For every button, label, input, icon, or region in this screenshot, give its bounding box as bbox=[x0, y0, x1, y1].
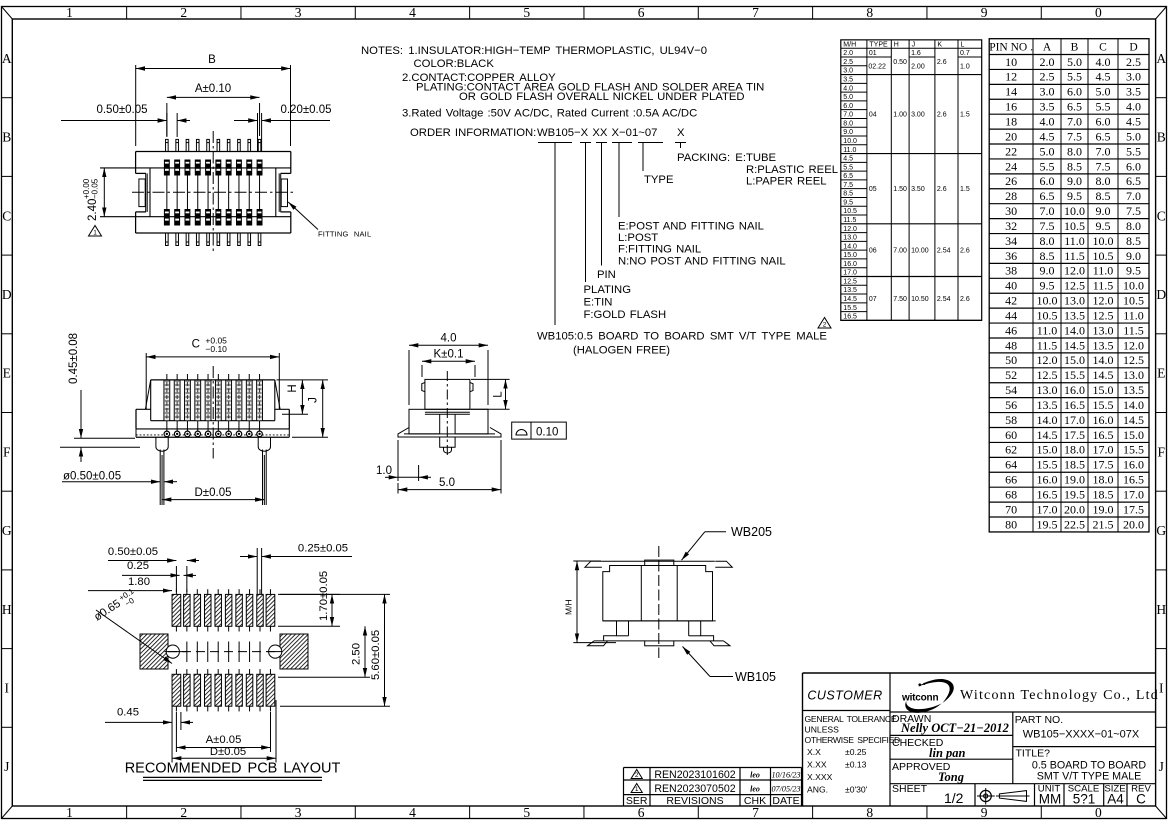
svg-text:A: A bbox=[1043, 42, 1052, 54]
svg-text:13.5: 13.5 bbox=[1123, 383, 1144, 397]
dimension M/H mating view bbox=[573, 560, 601, 562]
svg-text:20: 20 bbox=[1005, 129, 1017, 143]
svg-text:H: H bbox=[2, 602, 12, 617]
svg-text:E:TIN: E:TIN bbox=[584, 297, 613, 309]
svg-text:8.0: 8.0 bbox=[843, 120, 853, 127]
svg-text:1.0: 1.0 bbox=[376, 465, 392, 477]
side view middle body bbox=[409, 409, 488, 434]
svg-text:7: 7 bbox=[752, 805, 759, 820]
svg-text:12.5: 12.5 bbox=[1064, 279, 1085, 293]
svg-text:48: 48 bbox=[1005, 338, 1017, 352]
svg-text:2.6: 2.6 bbox=[960, 248, 970, 255]
svg-text:0.45±0.08: 0.45±0.08 bbox=[68, 333, 80, 384]
svg-text:1.50: 1.50 bbox=[893, 186, 907, 193]
svg-text:22: 22 bbox=[1005, 144, 1017, 158]
svg-text:17.5: 17.5 bbox=[1123, 502, 1144, 516]
svg-text:7.5: 7.5 bbox=[1040, 219, 1055, 233]
svg-text:0.20±0.05: 0.20±0.05 bbox=[280, 104, 331, 116]
svg-text:3: 3 bbox=[295, 5, 302, 20]
svg-text:15.0: 15.0 bbox=[1093, 383, 1114, 397]
svg-text:5.0: 5.0 bbox=[843, 94, 853, 101]
svg-text:14.5: 14.5 bbox=[1123, 413, 1144, 427]
svg-text:4.0: 4.0 bbox=[843, 85, 853, 92]
svg-text:N:NO POST AND FITTING NAIL: N:NO POST AND FITTING NAIL bbox=[618, 256, 786, 268]
svg-text:32: 32 bbox=[1005, 219, 1017, 233]
svg-text:16: 16 bbox=[1005, 100, 1017, 114]
svg-text:6.0: 6.0 bbox=[1067, 85, 1082, 99]
dimension 0.50±0.05 top view bbox=[166, 113, 168, 137]
svg-text:28: 28 bbox=[1005, 189, 1017, 203]
svg-text:8.0: 8.0 bbox=[1126, 219, 1141, 233]
svg-text:R:PLASTIC REEL: R:PLASTIC REEL bbox=[746, 164, 838, 176]
svg-text:2.6: 2.6 bbox=[937, 112, 947, 119]
front view left post pin bbox=[159, 450, 161, 506]
svg-text:10/16/23: 10/16/23 bbox=[771, 771, 800, 780]
svg-text:2.00: 2.00 bbox=[911, 63, 925, 70]
svg-text:PACKING: E:TUBE: PACKING: E:TUBE bbox=[677, 152, 777, 164]
svg-text:11.5: 11.5 bbox=[843, 217, 856, 224]
svg-text:16.5: 16.5 bbox=[1123, 473, 1144, 487]
svg-text:2.6: 2.6 bbox=[937, 59, 947, 66]
front view base bbox=[136, 408, 151, 410]
svg-text:2.6: 2.6 bbox=[937, 186, 947, 193]
svg-text:REVISIONS: REVISIONS bbox=[666, 795, 723, 807]
svg-text:C: C bbox=[1136, 792, 1146, 807]
svg-text:52: 52 bbox=[1005, 368, 1017, 382]
svg-text:1.6: 1.6 bbox=[911, 50, 921, 57]
top view wing outline bbox=[136, 151, 291, 153]
svg-text:15.0: 15.0 bbox=[843, 252, 857, 259]
svg-text:11.0: 11.0 bbox=[1093, 264, 1114, 278]
svg-text:7.0: 7.0 bbox=[1126, 189, 1141, 203]
svg-text:17.0: 17.0 bbox=[843, 270, 857, 277]
svg-text:FITTING NAIL: FITTING NAIL bbox=[318, 230, 371, 239]
svg-text:K±0.1: K±0.1 bbox=[434, 349, 464, 361]
svg-text:12.5: 12.5 bbox=[1093, 308, 1114, 322]
svg-text:14.0: 14.0 bbox=[843, 243, 857, 250]
svg-text:2.6: 2.6 bbox=[960, 296, 970, 303]
svg-text:H: H bbox=[894, 42, 899, 49]
svg-text:1.70±0.05: 1.70±0.05 bbox=[318, 571, 330, 621]
svg-text:CUSTOMER: CUSTOMER bbox=[807, 689, 882, 703]
svg-text:6.5: 6.5 bbox=[1040, 189, 1055, 203]
svg-text:2.0: 2.0 bbox=[1040, 55, 1055, 69]
svg-text:OTHERWISE SPECIFIED: OTHERWISE SPECIFIED bbox=[805, 735, 901, 745]
svg-text:leo: leo bbox=[750, 785, 760, 794]
svg-text:0: 0 bbox=[1095, 5, 1102, 20]
svg-text:8.0: 8.0 bbox=[1040, 234, 1055, 248]
front view solder balls bbox=[164, 431, 170, 437]
svg-text:10.5: 10.5 bbox=[1064, 219, 1085, 233]
svg-text:F:GOLD FLASH: F:GOLD FLASH bbox=[584, 309, 667, 321]
mating view WB105 side steps bbox=[628, 621, 630, 636]
svg-text:F:FITTING NAIL: F:FITTING NAIL bbox=[618, 244, 701, 256]
svg-text:18.0: 18.0 bbox=[1064, 443, 1085, 457]
svg-text:2.5: 2.5 bbox=[843, 59, 853, 66]
svg-text:18.0: 18.0 bbox=[1093, 473, 1114, 487]
dimension K±0.1 side view bbox=[421, 365, 423, 377]
svg-text:11.0: 11.0 bbox=[1123, 308, 1144, 322]
svg-text:11.0: 11.0 bbox=[1037, 323, 1058, 337]
front view centerline bbox=[212, 366, 214, 459]
svg-text:±0.25: ±0.25 bbox=[845, 747, 867, 757]
svg-text:H: H bbox=[287, 384, 299, 392]
side view top block bbox=[425, 379, 470, 409]
svg-text:17.0: 17.0 bbox=[1064, 413, 1085, 427]
svg-text:ORDER INFORMATION:: ORDER INFORMATION: bbox=[410, 127, 536, 139]
svg-text:ø0.50±0.05: ø0.50±0.05 bbox=[63, 471, 121, 483]
svg-text:A4: A4 bbox=[1107, 792, 1124, 807]
svg-text:8.5: 8.5 bbox=[843, 191, 853, 198]
dimension B top view bbox=[135, 65, 137, 146]
projection symbol bbox=[980, 790, 991, 801]
svg-text:16.5: 16.5 bbox=[1093, 428, 1114, 442]
svg-text:SMT V/T TYPE MALE: SMT V/T TYPE MALE bbox=[1037, 771, 1142, 783]
svg-text:7.5: 7.5 bbox=[1096, 159, 1111, 173]
svg-text:16.0: 16.0 bbox=[1064, 383, 1085, 397]
svg-text:56: 56 bbox=[1005, 398, 1017, 412]
title block grid lines bbox=[889, 673, 891, 806]
svg-text:M/H: M/H bbox=[564, 599, 574, 615]
svg-text:3.00: 3.00 bbox=[911, 112, 925, 119]
svg-text:J: J bbox=[4, 759, 9, 774]
svg-text:13.5: 13.5 bbox=[1093, 338, 1114, 352]
top view horizontal centerline bbox=[132, 191, 296, 193]
svg-text:4: 4 bbox=[409, 5, 416, 20]
svg-text:17.5: 17.5 bbox=[1064, 428, 1085, 442]
dimension H front view bbox=[277, 379, 329, 381]
svg-text:±0'30': ±0'30' bbox=[845, 785, 868, 795]
svg-text:2.50: 2.50 bbox=[351, 643, 363, 665]
mating view WB105 bottom flange bbox=[594, 640, 645, 642]
svg-text:8.5: 8.5 bbox=[1126, 234, 1141, 248]
svg-text:5.5: 5.5 bbox=[1126, 144, 1141, 158]
svg-text:SER: SER bbox=[626, 795, 648, 807]
svg-text:2.5: 2.5 bbox=[1126, 55, 1141, 69]
svg-text:6.0: 6.0 bbox=[1040, 174, 1055, 188]
dimension 2.50 pcb bbox=[278, 676, 370, 678]
svg-text:12.0: 12.0 bbox=[1123, 338, 1144, 352]
svg-text:7.5: 7.5 bbox=[1126, 204, 1141, 218]
svg-text:9.5: 9.5 bbox=[1126, 264, 1141, 278]
svg-text:11.5: 11.5 bbox=[1123, 323, 1144, 337]
dimension 5.60±0.05 pcb bbox=[280, 593, 390, 595]
svg-text:G: G bbox=[2, 523, 12, 538]
svg-text:X: X bbox=[677, 127, 685, 139]
svg-text:3.50: 3.50 bbox=[911, 186, 925, 193]
svg-text:TYPE: TYPE bbox=[644, 174, 674, 186]
svg-text:66: 66 bbox=[1005, 473, 1017, 487]
svg-text:6.0: 6.0 bbox=[843, 103, 853, 110]
svg-text:5.5: 5.5 bbox=[1067, 70, 1082, 84]
svg-text:8.5: 8.5 bbox=[1040, 249, 1055, 263]
pcb layout left hole circle bbox=[166, 645, 179, 658]
svg-text:16.5: 16.5 bbox=[1037, 488, 1058, 502]
svg-text:X.X: X.X bbox=[807, 747, 821, 757]
dimension C +0.05/-0.10 front view bbox=[145, 353, 147, 409]
svg-text:4: 4 bbox=[409, 805, 416, 820]
title block outline bbox=[803, 672, 1156, 674]
svg-text:6.5: 6.5 bbox=[1126, 174, 1141, 188]
svg-text:A: A bbox=[1156, 51, 1166, 66]
svg-text:X.XX: X.XX bbox=[807, 760, 827, 770]
svg-text:6.0: 6.0 bbox=[1096, 115, 1111, 129]
svg-text:18: 18 bbox=[1005, 115, 1017, 129]
svg-text:19.5: 19.5 bbox=[1064, 488, 1085, 502]
witconn logo bbox=[919, 679, 954, 703]
svg-text:10.0: 10.0 bbox=[1093, 234, 1114, 248]
svg-text:17.0: 17.0 bbox=[1123, 488, 1144, 502]
svg-text:GENERAL TOLERANCE: GENERAL TOLERANCE bbox=[805, 714, 897, 724]
svg-text:−0.05: −0.05 bbox=[91, 178, 100, 199]
svg-text:1: 1 bbox=[93, 230, 97, 237]
dimension J front view bbox=[292, 436, 328, 438]
svg-text:0.7: 0.7 bbox=[960, 50, 970, 57]
svg-text:2.0: 2.0 bbox=[843, 50, 853, 57]
svg-text:H: H bbox=[1156, 602, 1166, 617]
svg-text:SHEET: SHEET bbox=[892, 783, 928, 795]
svg-text:6.5: 6.5 bbox=[843, 173, 853, 180]
svg-text:9: 9 bbox=[981, 805, 988, 820]
svg-text:C: C bbox=[1157, 208, 1166, 223]
svg-text:3.0: 3.0 bbox=[1040, 85, 1055, 99]
svg-text:13.0: 13.0 bbox=[1093, 323, 1114, 337]
svg-text:CHK: CHK bbox=[744, 795, 766, 807]
svg-text:2.54: 2.54 bbox=[937, 248, 951, 255]
svg-text:9.5: 9.5 bbox=[1067, 189, 1082, 203]
svg-text:16.5: 16.5 bbox=[843, 314, 857, 321]
svg-text:44: 44 bbox=[1005, 308, 1017, 322]
side view center channel bbox=[439, 414, 441, 434]
svg-text:D: D bbox=[2, 287, 12, 302]
svg-text:J: J bbox=[1159, 759, 1164, 774]
frame row dividers left band bbox=[2, 97, 13, 99]
svg-text:10: 10 bbox=[1005, 55, 1017, 69]
front view left post bbox=[156, 437, 168, 451]
svg-text:14.0: 14.0 bbox=[1037, 413, 1058, 427]
svg-text:11.5: 11.5 bbox=[1093, 279, 1114, 293]
svg-text:11.5: 11.5 bbox=[1064, 249, 1085, 263]
svg-text:0.50±0.05: 0.50±0.05 bbox=[96, 104, 147, 116]
svg-text:12.0: 12.0 bbox=[1037, 353, 1058, 367]
svg-text:MM: MM bbox=[1039, 792, 1062, 807]
svg-text:±0.13: ±0.13 bbox=[845, 760, 867, 770]
svg-text:PIN: PIN bbox=[597, 269, 616, 281]
svg-text:13.5: 13.5 bbox=[1037, 398, 1058, 412]
svg-text:19.5: 19.5 bbox=[1037, 517, 1058, 531]
svg-text:lin pan: lin pan bbox=[929, 746, 966, 760]
svg-text:A±0.05: A±0.05 bbox=[206, 734, 242, 746]
svg-text:10.00: 10.00 bbox=[911, 248, 929, 255]
svg-text:13.5: 13.5 bbox=[843, 287, 857, 294]
dimension 4.0 side view bbox=[408, 350, 410, 405]
mating view WB205 body bbox=[603, 566, 713, 621]
mating view WB205 left wing tip bbox=[585, 561, 602, 567]
svg-text:7.00: 7.00 bbox=[893, 248, 907, 255]
svg-text:E: E bbox=[3, 366, 11, 381]
svg-text:8: 8 bbox=[866, 805, 873, 820]
svg-text:RECOMMENDED PCB LAYOUT: RECOMMENDED PCB LAYOUT bbox=[125, 761, 341, 777]
svg-text:M/H: M/H bbox=[843, 42, 856, 49]
svg-text:1.0: 1.0 bbox=[960, 63, 970, 70]
svg-text:21.5: 21.5 bbox=[1093, 517, 1114, 531]
svg-text:9.5: 9.5 bbox=[1096, 219, 1111, 233]
svg-text:3.5: 3.5 bbox=[1040, 100, 1055, 114]
svg-text:14.0: 14.0 bbox=[1064, 323, 1085, 337]
svg-text:7.50: 7.50 bbox=[893, 296, 907, 303]
svg-text:REN2023070502: REN2023070502 bbox=[654, 783, 735, 795]
svg-text:46: 46 bbox=[1005, 323, 1017, 337]
svg-text:14.5: 14.5 bbox=[1093, 368, 1114, 382]
svg-text:6.0: 6.0 bbox=[1126, 159, 1141, 173]
svg-text:7.0: 7.0 bbox=[1040, 204, 1055, 218]
svg-text:12.0: 12.0 bbox=[1093, 294, 1114, 308]
svg-text:1.80: 1.80 bbox=[128, 576, 150, 588]
svg-text:5.0: 5.0 bbox=[439, 477, 455, 489]
svg-text:witconn: witconn bbox=[901, 693, 938, 704]
svg-text:15.5: 15.5 bbox=[1037, 458, 1058, 472]
svg-text:2.54: 2.54 bbox=[937, 296, 951, 303]
pcb layout pads top row bbox=[172, 594, 181, 626]
svg-text:7.5: 7.5 bbox=[843, 182, 853, 189]
svg-text:COLOR:BLACK: COLOR:BLACK bbox=[414, 58, 495, 70]
mating view centerline bbox=[658, 546, 660, 658]
svg-text:PLATING: PLATING bbox=[584, 284, 632, 296]
svg-text:80: 80 bbox=[1005, 517, 1017, 531]
svg-text:10.0: 10.0 bbox=[843, 138, 857, 145]
svg-text:UNLESS: UNLESS bbox=[805, 725, 840, 735]
svg-text:WB105:0.5 BOARD TO BOARD S: WB105:0.5 BOARD TO BOARD SMT V/T TYPE MA… bbox=[537, 331, 827, 343]
svg-text:3: 3 bbox=[295, 805, 302, 820]
svg-text:10.0: 10.0 bbox=[1064, 204, 1085, 218]
svg-text:13.0: 13.0 bbox=[1064, 294, 1085, 308]
svg-text:2.40: 2.40 bbox=[87, 199, 99, 221]
svg-text:10.0: 10.0 bbox=[1123, 279, 1144, 293]
svg-text:17.0: 17.0 bbox=[1093, 443, 1114, 457]
order info drop lines bbox=[554, 143, 556, 326]
svg-text:3.0: 3.0 bbox=[1126, 70, 1141, 84]
svg-text:PIN NO .: PIN NO . bbox=[989, 42, 1033, 54]
mating view WB105 foot tips bbox=[588, 641, 608, 646]
svg-text:13.0: 13.0 bbox=[843, 235, 857, 242]
svg-text:9.0: 9.0 bbox=[1096, 204, 1111, 218]
dimension 1.70±0.05 pcb bbox=[278, 593, 340, 595]
dimension hole diameter pcb bbox=[91, 586, 140, 626]
pcb layout pads bottom row bbox=[172, 674, 181, 706]
svg-text:1.5: 1.5 bbox=[960, 112, 970, 119]
mating view WB205 right wing tip bbox=[715, 561, 732, 567]
svg-text:10.5: 10.5 bbox=[1123, 294, 1144, 308]
svg-text:42: 42 bbox=[1005, 294, 1017, 308]
svg-text:F: F bbox=[1157, 444, 1165, 459]
svg-text:16.0: 16.0 bbox=[1093, 413, 1114, 427]
front view right post bbox=[258, 437, 270, 451]
svg-text:9.5: 9.5 bbox=[1040, 279, 1055, 293]
note triangle 1 top view bbox=[88, 226, 101, 237]
svg-text:13.0: 13.0 bbox=[1037, 383, 1058, 397]
svg-text:J: J bbox=[308, 397, 320, 403]
svg-text:5?1: 5?1 bbox=[1073, 792, 1096, 807]
svg-text:I: I bbox=[5, 680, 10, 695]
frame corner diagonals bbox=[2, 7, 13, 20]
svg-text:PART NO.: PART NO. bbox=[1015, 714, 1063, 726]
svg-text:E:POST AND FITTING NAIL: E:POST AND FITTING NAIL bbox=[618, 221, 764, 233]
front view upper body bbox=[151, 379, 275, 381]
svg-text:60: 60 bbox=[1005, 428, 1017, 442]
svg-text:16.0: 16.0 bbox=[1123, 458, 1144, 472]
svg-text:04: 04 bbox=[869, 112, 877, 119]
svg-text:68: 68 bbox=[1005, 488, 1017, 502]
frame row dividers right band bbox=[1156, 97, 1167, 99]
dimension 0.20±0.05 top view bbox=[257, 113, 259, 152]
svg-text:17.5: 17.5 bbox=[1093, 458, 1114, 472]
svg-text:4.5: 4.5 bbox=[843, 156, 853, 163]
pcb layout left square pad bbox=[140, 634, 168, 669]
svg-text:14.5: 14.5 bbox=[1037, 428, 1058, 442]
svg-text:8.5: 8.5 bbox=[1067, 159, 1082, 173]
top view left notch step bbox=[136, 172, 146, 174]
svg-text:2: 2 bbox=[180, 5, 187, 20]
svg-text:34: 34 bbox=[1005, 234, 1017, 248]
svg-text:26: 26 bbox=[1005, 174, 1017, 188]
svg-text:3.5: 3.5 bbox=[1126, 85, 1141, 99]
svg-text:OR GOLD FLASH OVERALL NICK: OR GOLD FLASH OVERALL NICKEL UNDER PLATE… bbox=[459, 91, 745, 103]
svg-text:5: 5 bbox=[523, 805, 530, 820]
svg-text:(HALOGEN FREE): (HALOGEN FREE) bbox=[573, 345, 670, 357]
svg-text:WB105−XXXX−01~07X: WB105−XXXX−01~07X bbox=[1023, 729, 1140, 741]
svg-text:0.50: 0.50 bbox=[893, 59, 907, 66]
svg-text:0.25: 0.25 bbox=[127, 560, 149, 572]
svg-text:11.0: 11.0 bbox=[1064, 234, 1085, 248]
flatness tolerance callout side view bbox=[512, 422, 567, 439]
svg-text:3.Rated Voltage :50V AC/DC,: 3.Rated Voltage :50V AC/DC, Rated Curren… bbox=[402, 108, 697, 120]
svg-text:30: 30 bbox=[1005, 204, 1017, 218]
side view bottom post bbox=[440, 437, 455, 447]
svg-text:G: G bbox=[1156, 523, 1166, 538]
svg-text:24: 24 bbox=[1005, 159, 1017, 173]
svg-text:10.5: 10.5 bbox=[843, 208, 857, 215]
svg-text:4.5: 4.5 bbox=[1040, 129, 1055, 143]
dimension A±0.10 top view bbox=[166, 103, 168, 136]
mating view cavity walls bbox=[640, 566, 642, 621]
svg-text:11.0: 11.0 bbox=[843, 147, 856, 154]
svg-text:15.5: 15.5 bbox=[843, 305, 857, 312]
svg-text:64: 64 bbox=[1005, 458, 1017, 472]
svg-text:X.XXX: X.XXX bbox=[807, 772, 833, 782]
svg-text:0.45: 0.45 bbox=[117, 707, 139, 719]
svg-text:07/05/23: 07/05/23 bbox=[771, 785, 800, 794]
svg-text:WB105−X XX X−01~07: WB105−X XX X−01~07 bbox=[537, 127, 657, 139]
svg-text:8.0: 8.0 bbox=[1067, 144, 1082, 158]
mating view WB205 top flange bbox=[602, 560, 715, 562]
svg-text:1.5: 1.5 bbox=[960, 186, 970, 193]
svg-text:4.0: 4.0 bbox=[441, 333, 457, 345]
svg-text:5.0: 5.0 bbox=[1126, 129, 1141, 143]
M/H type table bbox=[841, 40, 982, 321]
svg-text:4.5: 4.5 bbox=[1096, 70, 1111, 84]
mating view center tab top bbox=[645, 560, 674, 565]
svg-text:5.60±0.05: 5.60±0.05 bbox=[370, 630, 382, 680]
svg-text:B: B bbox=[1071, 42, 1079, 54]
svg-text:14.5: 14.5 bbox=[843, 296, 857, 303]
svg-text:3.0: 3.0 bbox=[843, 68, 853, 75]
svg-text:4.0: 4.0 bbox=[1126, 100, 1141, 114]
top view right fitting nail slot bbox=[281, 179, 287, 207]
svg-text:1: 1 bbox=[66, 5, 73, 20]
svg-text:TITLE?: TITLE? bbox=[1016, 748, 1051, 760]
revisions table bbox=[624, 767, 802, 769]
svg-text:38: 38 bbox=[1005, 264, 1017, 278]
